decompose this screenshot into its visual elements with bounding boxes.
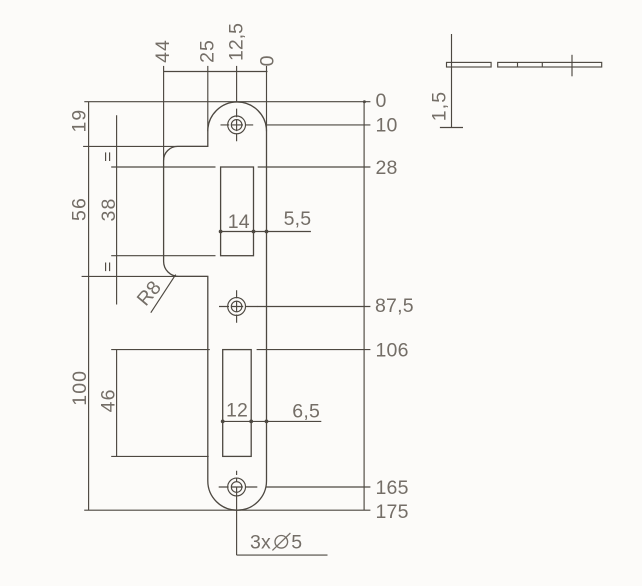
svg-text:28: 28 — [376, 157, 398, 179]
87,5 line (middle hole center) — [257, 306, 370, 308]
svg-text:0: 0 — [376, 90, 387, 112]
extension line 25 / plate left edge top — [207, 66, 209, 131]
dimension dot 5,5-right — [265, 230, 269, 234]
175 line (bottom) — [84, 509, 370, 511]
1,5 extension line — [451, 34, 453, 128]
svg-text:87,5: 87,5 — [375, 295, 414, 317]
screw hole middle, center crosshair — [219, 290, 257, 323]
screw hole middle, outer circle — [228, 298, 246, 316]
screw hole middle, inner circle — [231, 301, 242, 312]
equality mark upper — [105, 152, 107, 161]
screw hole bottom, center crosshair — [219, 471, 258, 487]
dimension dot at 0-line end — [363, 100, 366, 103]
section view strip, right piece — [498, 62, 602, 67]
svg-text:165: 165 — [376, 477, 409, 499]
svg-text:46: 46 — [97, 388, 119, 412]
svg-text:6,5: 6,5 — [292, 400, 320, 422]
screw hole top, outer circle — [228, 116, 246, 134]
strike plate outline (front view, rounded ends, side lip) — [164, 102, 267, 510]
dimension dot 12-left — [221, 420, 225, 424]
svg-text:0: 0 — [257, 54, 279, 66]
section strip division tick 2 — [541, 62, 543, 67]
106 line, right segment — [257, 349, 371, 351]
svg-text:19: 19 — [68, 109, 90, 133]
screw hole top, inner circle — [231, 120, 242, 131]
10 line (top hole center) — [267, 124, 371, 126]
top dimension line — [163, 71, 267, 73]
extension line 0 above plate right edge — [266, 66, 268, 131]
section strip division tick 1 — [517, 62, 519, 67]
19 line / lip top edge — [83, 145, 208, 147]
28 line, left segment — [111, 166, 215, 168]
svg-text:5,5: 5,5 — [284, 208, 312, 230]
latch cutout (14 x 38) — [221, 167, 254, 256]
svg-text:5: 5 — [291, 531, 302, 553]
1,5 bottom tick — [440, 127, 463, 129]
screw hole top, center crosshair — [221, 109, 254, 142]
106 line, left segment — [111, 349, 210, 351]
deadbolt cutout (12 x 46) — [223, 350, 252, 457]
left dimension line for 38, upper segment — [116, 115, 118, 304]
75 line / lip bottom edge — [82, 275, 208, 277]
svg-text:3x: 3x — [250, 531, 271, 553]
extension line 12,5 hole centerline — [236, 66, 238, 102]
screw hole bottom, outer circle — [228, 478, 246, 496]
svg-text:175: 175 — [376, 501, 409, 523]
svg-text:1,5: 1,5 — [428, 91, 450, 121]
dimension dot 12-right / 6,5-left — [249, 420, 253, 424]
svg-text:14: 14 — [228, 211, 250, 233]
svg-text:10: 10 — [376, 115, 398, 137]
screw hole bottom, inner circle — [231, 482, 242, 493]
3x diameter-5 leader, horizontal part — [237, 554, 328, 556]
dimension dot 6,5-right — [265, 420, 269, 424]
0 reference line (top) — [84, 101, 370, 103]
right dimension line — [363, 102, 365, 511]
left dimension line for 19/56/100 — [88, 102, 90, 511]
section view strip, left piece — [447, 62, 492, 67]
66 line (latch cutout bottom extension) — [111, 255, 215, 257]
svg-text:25: 25 — [197, 39, 219, 63]
left dimension line for 46, lower segment — [116, 350, 118, 457]
dimension line 12 / 6,5 — [223, 420, 322, 422]
165 line (bottom hole center) — [267, 486, 371, 488]
diameter symbol — [272, 533, 290, 550]
svg-text:106: 106 — [376, 340, 409, 362]
svg-text:12: 12 — [226, 400, 248, 422]
section hole centerline mark — [571, 55, 573, 77]
R8 leader line — [151, 275, 176, 313]
svg-text:12,5: 12,5 — [226, 23, 248, 61]
dimension dot 14-left — [219, 230, 223, 234]
3x diameter-5 leader, vertical part — [236, 487, 238, 555]
equality mark lower — [105, 263, 107, 272]
dimension dot 14-right / 5,5-left — [252, 230, 256, 234]
152 line (deadbolt cutout bottom extension) — [111, 455, 209, 457]
extension line 44 / lip left edge — [163, 66, 165, 160]
svg-text:38: 38 — [98, 198, 120, 222]
svg-text:44: 44 — [152, 39, 174, 63]
svg-text:56: 56 — [68, 197, 90, 221]
28 line, right segment — [258, 166, 371, 168]
dimension line 14 / 5,5 — [221, 231, 311, 233]
svg-text:100: 100 — [69, 370, 91, 406]
